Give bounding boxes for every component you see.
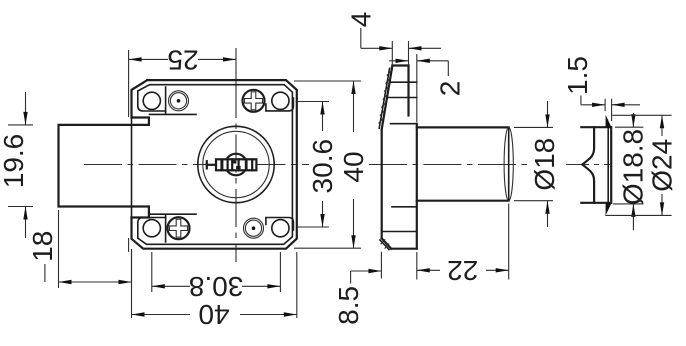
dimension diameter 18 [514, 101, 560, 227]
svg-text:40: 40 [338, 151, 369, 182]
plate outer outline left lower notch [132, 207, 149, 218]
corner hole top-right [272, 92, 289, 109]
clip nut right face [607, 127, 609, 203]
pocket around bottom-left corner hole [138, 218, 166, 243]
svg-text:Ø18.8: Ø18.8 [618, 129, 649, 205]
dimension 40 vertical [294, 81, 369, 248]
middle view horizontal centerline [369, 164, 531, 166]
phillips screw bottom-left [168, 217, 190, 239]
svg-text:2: 2 [434, 81, 465, 97]
side view body step line [391, 123, 417, 125]
plate inner outline [138, 85, 293, 245]
clip nut bottom brim [581, 202, 609, 204]
svg-text:30.6: 30.6 [307, 139, 338, 194]
dimension 30.8 [152, 252, 281, 302]
dimension diameter 18.8 [613, 113, 649, 230]
side view plate front face [407, 66, 409, 116]
dimension 19.6 [0, 92, 33, 238]
pin hole ring top-left [169, 91, 189, 111]
dimension 8.5 [333, 252, 382, 325]
side view upper internal line [387, 97, 417, 99]
side view bottom-left chamfer [380, 238, 391, 249]
dimension 40 bottom [132, 252, 297, 330]
side view lower internal line [392, 206, 417, 208]
plate left edge through latch [131, 118, 133, 218]
pocket around bottom-right corner hole [266, 218, 294, 231]
side view rear body face [416, 124, 418, 249]
dimension 22 [417, 204, 509, 286]
svg-text:1.5: 1.5 [562, 56, 593, 95]
barrel end ellipse [504, 127, 513, 200]
clip nut left wall with wave [582, 127, 594, 203]
key tip T bar [206, 161, 208, 168]
svg-text:Ø24: Ø24 [647, 139, 678, 192]
svg-text:4: 4 [346, 12, 377, 28]
dimension 4 [346, 12, 442, 66]
plate outer outline [132, 80, 297, 249]
side view plate bottom line [382, 231, 417, 233]
plate outer outline left upper notch [132, 80, 149, 125]
svg-text:8.5: 8.5 [333, 286, 364, 325]
corner hole top-left [143, 92, 160, 109]
pocket around top-right corner hole [266, 98, 294, 111]
clip nut top brim [581, 126, 609, 128]
latch bolt outline [59, 125, 149, 207]
front view vertical centerline [235, 48, 237, 80]
cylinder outer circle [198, 126, 274, 202]
cylinder inner circle [203, 131, 269, 197]
side view left edge [381, 129, 383, 238]
side view flange top edge [392, 64, 408, 66]
pin hole ring bottom-right [244, 218, 264, 238]
corner hole bottom-left [143, 220, 160, 237]
clip nut top lip [606, 115, 612, 128]
dimension 1.5 [562, 56, 640, 121]
phillips screw top-right [243, 90, 265, 112]
side view plate top line [390, 81, 417, 83]
barrel bottom edge [417, 200, 509, 202]
side view drafted top-left edge [379, 66, 393, 130]
dimension 18 [27, 210, 132, 288]
dimension diameter 24 [605, 115, 677, 215]
dimension 25 [129, 45, 236, 252]
dimension 30.6 [296, 102, 339, 228]
svg-text:30.8: 30.8 [189, 271, 244, 302]
svg-text:22: 22 [447, 255, 478, 286]
corner hole bottom-right [272, 220, 289, 237]
svg-text:Ø18: Ø18 [529, 138, 560, 191]
barrel end face [508, 127, 510, 200]
step line bottom-left [150, 214, 197, 217]
key stem [207, 164, 216, 166]
front view horizontal centerline [84, 164, 309, 166]
svg-text:19.6: 19.6 [0, 134, 29, 189]
clip nut bottom lip [606, 203, 612, 216]
svg-text:40: 40 [198, 299, 229, 330]
key plug circle [225, 154, 247, 176]
svg-text:18: 18 [27, 231, 58, 262]
side view bottom edge [391, 248, 417, 250]
step line top-left [150, 111, 197, 115]
dimension 2 [389, 54, 465, 122]
right view horizontal centerline [566, 164, 612, 166]
barrel top edge [417, 126, 509, 128]
pocket around top-left corner hole [138, 87, 166, 111]
svg-text:25: 25 [167, 45, 198, 76]
keyway slot [216, 159, 256, 170]
